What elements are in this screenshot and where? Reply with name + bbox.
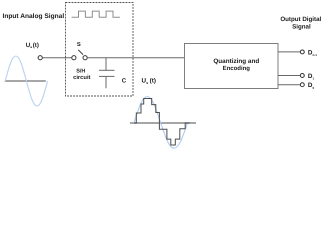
middle blue sine: [134, 97, 188, 149]
svg-text:Quantizing and: Quantizing and: [213, 58, 259, 65]
svg-text:S: S: [77, 41, 81, 48]
svg-text:Ua(t): Ua(t): [26, 42, 39, 49]
staircase sampled signal: [134, 99, 190, 146]
capacitor C: [105, 58, 107, 71]
clock square wave: [72, 11, 120, 17]
output terminal D1: [300, 74, 304, 78]
svg-text:Output Digital: Output Digital: [280, 16, 321, 23]
switch contact circle left: [72, 56, 76, 60]
svg-text:Signal: Signal: [292, 23, 311, 30]
left sine axis: [5, 80, 46, 82]
quantizing and encoding box: [185, 44, 279, 89]
wire: switch to quantizing box: [87, 57, 184, 59]
left sine wave (input analog signal): [5, 56, 47, 106]
svg-text:Input Analog Signal: Input Analog Signal: [3, 13, 65, 20]
output wire Dn-1: [278, 51, 300, 53]
svg-text:Us(t): Us(t): [142, 77, 156, 85]
svg-text:S/H: S/H: [76, 69, 85, 75]
svg-text:Encoding: Encoding: [223, 65, 251, 72]
output wire D0: [278, 84, 300, 86]
switch lever: [78, 50, 83, 55]
svg-text:C: C: [122, 78, 127, 85]
wire: input terminal to switch: [42, 57, 71, 59]
input terminal circle: [38, 56, 42, 60]
middle graph axis: [130, 122, 196, 124]
output wire D1: [278, 75, 300, 77]
switch contact circle right: [83, 56, 87, 60]
output terminal D0: [300, 83, 304, 87]
dashed box (S/H circuit): [66, 3, 134, 97]
svg-text:circuit: circuit: [73, 74, 90, 81]
output terminal Dn-1: [300, 50, 304, 54]
